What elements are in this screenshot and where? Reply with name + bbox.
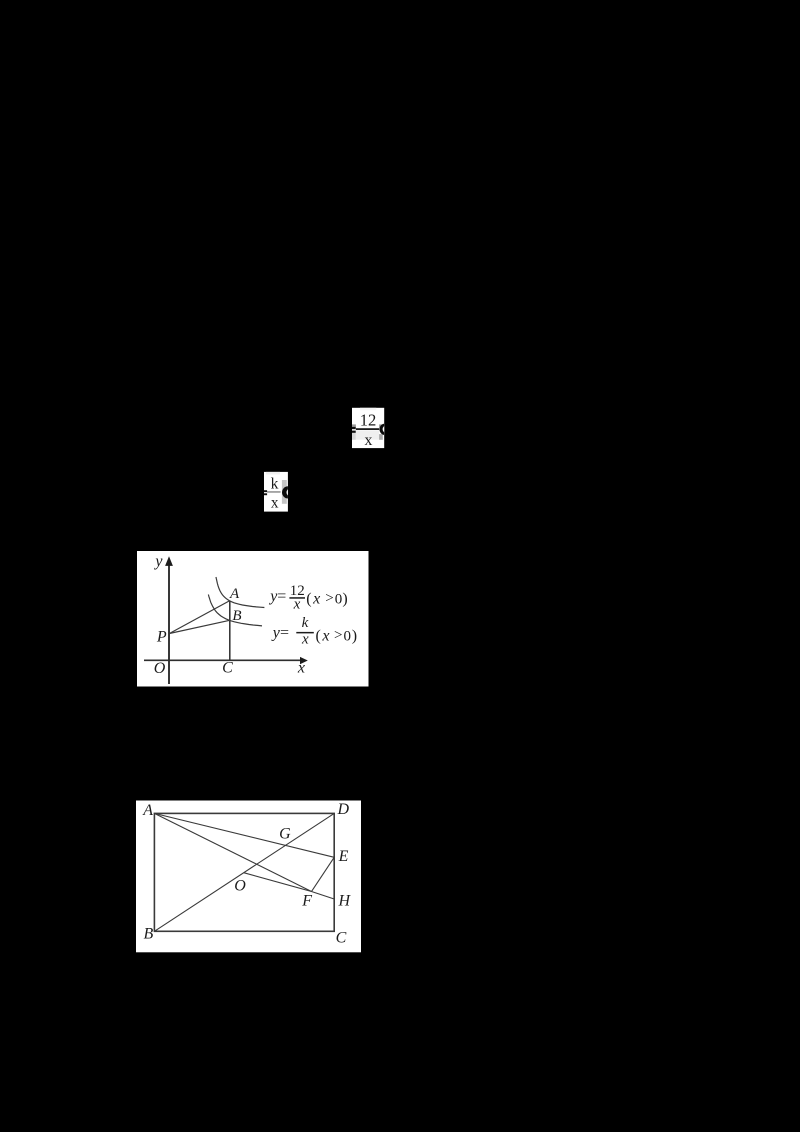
svg-text:A: A: [229, 586, 240, 602]
svg-text:y: y: [153, 553, 163, 570]
svg-text:F: F: [301, 892, 312, 909]
svg-text:0: 0: [335, 591, 343, 607]
figure panel 2: rectangle ABCD: [136, 801, 361, 953]
segment E-F: [312, 857, 335, 891]
svg-text:H: H: [338, 893, 352, 910]
svg-text:>: >: [325, 591, 333, 607]
svg-text:k: k: [302, 615, 309, 631]
y-axis: [165, 556, 173, 684]
svg-text:(: (: [306, 591, 311, 608]
svg-text:): ): [352, 628, 357, 645]
figure panel 1: hyperbola graph: [137, 551, 369, 687]
vertical segment A-C: [229, 601, 231, 661]
diagonal B-D: [154, 813, 334, 931]
segment A-E: [154, 813, 334, 857]
svg-text:=: =: [280, 624, 289, 641]
svg-text:x: x: [321, 628, 329, 645]
line P-A: [169, 601, 229, 634]
formula y=12/x (x>0): [268, 583, 348, 613]
svg-text:G: G: [279, 825, 291, 842]
svg-text:): ): [342, 591, 347, 608]
segment O-F: [244, 873, 312, 892]
svg-text:(: (: [316, 628, 321, 645]
svg-text:E: E: [338, 848, 349, 865]
svg-text:x: x: [271, 495, 279, 512]
svg-text:D: D: [337, 801, 350, 818]
svg-text:0: 0: [344, 628, 352, 644]
svg-text:C: C: [222, 660, 233, 677]
svg-text:x: x: [293, 597, 301, 613]
svg-text:O: O: [154, 660, 166, 677]
segment F-H: [312, 892, 335, 900]
svg-text:x: x: [301, 632, 309, 648]
formula y=k/x (x>0): [271, 615, 357, 647]
segment A-F: [154, 813, 311, 891]
svg-text:>: >: [334, 628, 342, 644]
hyperbola y=k/x branch: [208, 595, 262, 626]
svg-text:C: C: [336, 929, 347, 946]
svg-text:P: P: [156, 629, 167, 646]
svg-text:=: =: [277, 588, 286, 605]
formula image box 1: =12/x(: [352, 408, 390, 449]
x-axis: [144, 657, 308, 664]
line P-B: [169, 620, 229, 633]
svg-text:12: 12: [360, 410, 377, 429]
svg-text:x: x: [297, 660, 305, 677]
svg-text:O: O: [234, 877, 246, 894]
svg-text:x: x: [364, 432, 372, 449]
formula image box 2: =k/x(: [264, 472, 294, 512]
hyperbola y=12/x branch: [216, 577, 264, 608]
svg-text:k: k: [271, 475, 279, 492]
rectangle ABCD: [154, 813, 334, 931]
svg-text:A: A: [142, 802, 153, 819]
svg-text:B: B: [144, 926, 154, 943]
svg-text:B: B: [232, 608, 241, 624]
svg-text:x: x: [312, 591, 320, 608]
